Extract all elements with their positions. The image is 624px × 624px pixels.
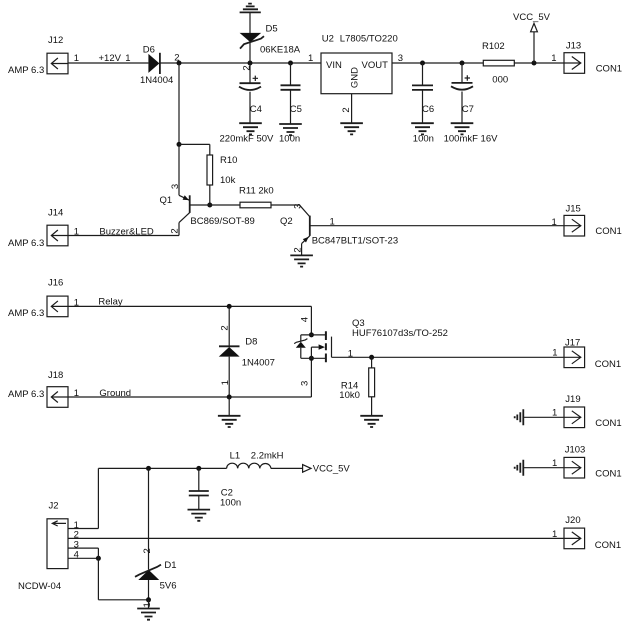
svg-text:C6: C6 [422,104,434,115]
resistor R14 10k0 [339,357,374,416]
ground (below Q2) [290,255,313,266]
svg-text:Buzzer&LED: Buzzer&LED [99,226,154,237]
svg-text:100n: 100n [220,498,241,509]
connector J2 NCDW-04 [18,500,79,592]
ground (below C4) [239,123,262,134]
svg-text:J18: J18 [48,370,63,381]
regulator U2 L7805/TO220 [308,34,403,94]
svg-text:R10: R10 [220,155,237,166]
connector J17 [552,338,621,370]
svg-text:220mkF 50V: 220mkF 50V [220,134,275,145]
ground (below U2) [340,123,363,134]
node junction dot at C5 [288,61,293,66]
svg-text:J19: J19 [565,394,580,405]
node junction dot at D1 branch [146,466,151,471]
svg-text:1: 1 [552,217,557,228]
svg-text:2: 2 [341,107,352,112]
svg-text:D5: D5 [266,24,278,35]
svg-text:1: 1 [220,380,231,385]
resistor R102 000 [482,41,514,86]
wire J2 pin3 [68,547,98,549]
wire J2 pin4 [68,557,98,559]
ground (below C7) [451,123,474,134]
svg-text:3: 3 [170,184,181,189]
wire J2 pin2 to J20 [68,537,564,539]
power symbol VCC_5V [513,12,551,63]
svg-text:D1: D1 [164,560,176,571]
connector J16 [8,277,79,319]
connector J19 [564,394,622,429]
wire D8 node to ground [228,397,230,416]
wire jog to R10 [179,144,210,155]
connector J13 [551,40,622,74]
ground (sideways, J19) [515,409,524,425]
node junction dot at Q3 source [309,356,314,361]
wire to J103 [523,458,564,469]
svg-text:1: 1 [125,53,130,64]
svg-text:GND: GND [350,67,361,88]
capacitor C5 100n [279,63,302,145]
transistor Q2 BC847BLT1/SOT-23 [280,204,398,256]
node junction dot at J2 pin4 [96,556,101,561]
svg-text:06KE18A: 06KE18A [260,44,301,55]
svg-text:L1: L1 [230,451,241,462]
svg-text:1N4007: 1N4007 [242,358,275,369]
wire +12V net J12 to D6 [68,53,148,64]
node junction dot at x179 [177,61,182,66]
TVS diode D5 06KE18A [240,12,301,70]
resistor R11 2k0 [239,186,299,208]
svg-text:U2: U2 [322,34,334,45]
mosfet Q3 HUF76107d3s/TO-252 [294,318,448,363]
ground (inverted, above D5) [240,4,261,13]
node junction dot at R10 tap [177,142,182,147]
ground (below D1) [137,609,160,620]
svg-text:1: 1 [552,529,557,540]
svg-text:VIN: VIN [326,60,342,71]
svg-text:HUF76107d3s/TO-252: HUF76107d3s/TO-252 [352,328,448,339]
wire Relay net [68,297,311,308]
wire Q2 pin1 to J15 [310,217,564,228]
diode D6 1N4004 [140,44,179,86]
ground (below C5) [279,124,302,135]
svg-text:Q1: Q1 [160,195,173,206]
node junction dot at R14 [369,355,374,360]
svg-text:1: 1 [552,408,557,419]
svg-text:AMP 6.3: AMP 6.3 [8,65,44,76]
svg-text:1: 1 [330,217,335,228]
svg-text:C4: C4 [250,104,262,115]
svg-text:1: 1 [142,602,153,607]
svg-text:1: 1 [348,348,353,359]
svg-text:1: 1 [551,53,556,64]
wire VCC_5V bottom rail [98,467,302,469]
wire J2 pin1 to rail [68,468,98,528]
svg-text:BC869/SOT-89: BC869/SOT-89 [190,216,254,227]
svg-text:3: 3 [299,381,310,386]
svg-text:AMP 6.3: AMP 6.3 [8,308,44,319]
capacitor C2 100n [189,468,241,509]
node junction dot at D5/C4 [248,61,253,66]
svg-text:BC847BLT1/SOT-23: BC847BLT1/SOT-23 [312,236,398,247]
wire to J19 [523,408,564,419]
wire pin3/4 down and right [98,548,148,600]
svg-text:CON1: CON1 [595,540,621,551]
svg-text:3: 3 [292,204,303,209]
svg-text:D6: D6 [143,44,155,55]
connector J12 [8,35,79,76]
svg-text:000: 000 [492,75,508,86]
svg-text:1: 1 [552,458,557,469]
svg-text:NCDW-04: NCDW-04 [18,581,61,592]
wire U2 pin 2 to ground [341,94,352,124]
ground (below relay net) [218,416,241,427]
svg-text:1: 1 [308,53,313,64]
svg-text:10k: 10k [220,175,236,186]
svg-text:VCC_5V: VCC_5V [513,12,551,23]
svg-text:+12V: +12V [99,53,122,64]
wire relay loop right side [299,306,311,397]
connector J20 [564,515,621,551]
svg-text:2: 2 [292,247,303,252]
svg-text:1: 1 [552,348,557,359]
svg-text:J20: J20 [565,515,580,526]
svg-text:C5: C5 [290,104,302,115]
connector J103 [564,444,622,479]
svg-text:CON1: CON1 [595,359,621,370]
svg-text:J12: J12 [48,35,63,46]
capacitor C7 100mkF 16V [444,63,499,145]
svg-text:1N4004: 1N4004 [140,75,173,86]
svg-text:2: 2 [220,325,231,330]
ground (sideways, J103) [515,460,524,476]
svg-text:CON1: CON1 [595,418,621,429]
svg-text:J2: J2 [49,500,59,511]
svg-text:AMP 6.3: AMP 6.3 [8,238,44,249]
svg-text:Relay: Relay [98,297,123,308]
svg-text:2: 2 [142,548,153,553]
svg-text:VCC_5V: VCC_5V [313,464,351,475]
svg-text:2: 2 [169,228,180,233]
wire VOUT rail [392,62,483,64]
svg-text:Q2: Q2 [280,216,293,227]
svg-text:CON1: CON1 [595,226,621,237]
node junction dot at Q3 drain [309,332,314,337]
ground (below R14) [360,416,383,427]
diode D8 1N4007 [219,306,275,397]
wire Q3 gate to J17 [332,348,565,359]
connector J14 [8,208,79,249]
resistor R10 10k [207,155,237,205]
node junction dot at VCC_5V [532,61,537,66]
svg-text:CON1: CON1 [595,469,621,480]
svg-text:Ground: Ground [99,388,131,399]
svg-text:AMP 6.3: AMP 6.3 [8,389,44,400]
svg-text:J16: J16 [48,277,63,288]
svg-text:L7805/TO220: L7805/TO220 [340,34,398,45]
svg-text:J17: J17 [565,338,580,349]
wire Buzzer&LED net [68,226,179,237]
svg-text:100mkF 16V: 100mkF 16V [444,134,499,145]
connector J15 [552,203,622,237]
node junction dot at D8 top [227,304,232,309]
svg-text:2.2mkH: 2.2mkH [251,451,284,462]
zener D1 5V6 [135,468,177,607]
svg-text:C7: C7 [462,104,474,115]
node junction dot at D8 bottom [227,395,232,400]
node junction dot at Q1 base [207,203,212,208]
ground (below C6) [411,123,434,134]
power symbol VCC_5V (arrow right) [303,464,351,475]
svg-text:5V6: 5V6 [160,580,177,591]
node junction dot at D1 bottom [146,597,151,602]
svg-text:R102: R102 [482,41,505,52]
wire R102 to J13 [514,62,564,64]
node junction dot at C6 [420,61,425,66]
wire main +12V rail D6 to U2 [160,62,321,64]
transistor Q1 BC869/SOT-89 [160,184,255,236]
svg-text:VOUT: VOUT [362,60,389,71]
capacitor C4 220mkF 50V [220,63,275,145]
svg-text:2: 2 [241,65,252,70]
svg-text:CON1: CON1 [596,64,622,75]
svg-text:10k0: 10k0 [339,390,360,401]
node junction dot at C2 branch [196,466,201,471]
capacitor C6 100n [412,63,434,145]
connector J18 [8,370,79,407]
svg-text:J15: J15 [566,203,581,214]
ground (below C2) [188,510,211,521]
svg-text:J13: J13 [566,40,581,51]
wire D1 node to ground [148,600,150,609]
inductor L1 2.2mkH [227,451,284,469]
svg-text:4: 4 [299,317,310,322]
node junction dot at C7 [460,61,465,66]
svg-text:J14: J14 [48,208,63,219]
svg-text:D8: D8 [245,336,257,347]
svg-text:J103: J103 [565,444,586,455]
wire Ground net [68,388,311,399]
svg-text:R11 2k0: R11 2k0 [239,186,274,197]
wire x179 down to Q1 [178,63,180,195]
